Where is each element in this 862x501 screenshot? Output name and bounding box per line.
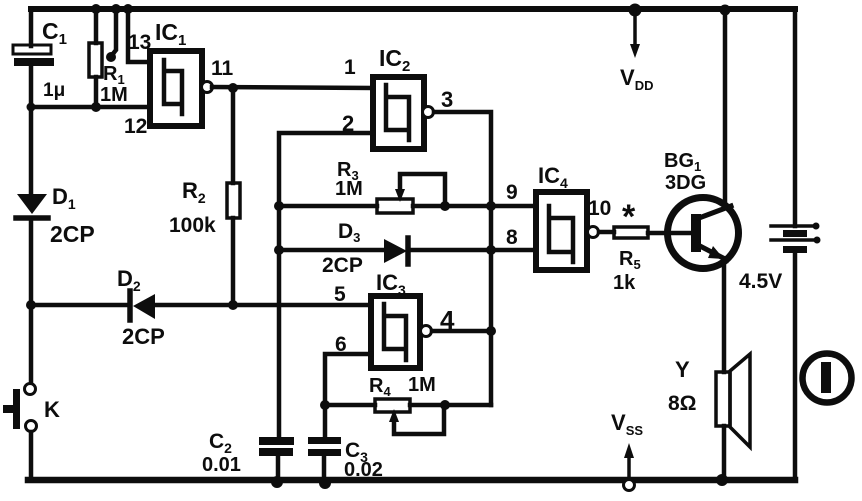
- node top rail R1: [91, 4, 101, 14]
- wire R3 row left: [279, 204, 377, 209]
- op-amp IC3 (gate): [371, 296, 420, 368]
- svg-text:0.01: 0.01: [202, 454, 241, 476]
- transistor BG1: [668, 198, 739, 269]
- wire collector to rail: [723, 9, 728, 207]
- node pin3 bus / R3 row: [486, 201, 496, 211]
- wire left rail top to C1: [29, 9, 34, 46]
- node pin11 / R2: [228, 83, 238, 93]
- wire C1 to D1: [29, 66, 34, 195]
- node VDD on rail: [629, 4, 642, 17]
- trimmer arm R4: [389, 405, 444, 434]
- svg-text:1M: 1M: [335, 178, 363, 200]
- svg-text:13: 13: [128, 31, 151, 54]
- wire R3 row right: [413, 204, 536, 209]
- wire pin 12 row: [31, 105, 150, 110]
- pin 10 bubble IC4: [588, 227, 599, 238]
- battery 4.5V: [771, 223, 821, 254]
- resistor R4: [375, 399, 410, 412]
- node R3 tap: [440, 201, 450, 211]
- svg-text:8Ω: 8Ω: [668, 392, 697, 415]
- resistor R1: [89, 43, 102, 77]
- wire R2 to D2 row: [231, 218, 236, 305]
- svg-text:2CP: 2CP: [122, 324, 165, 349]
- resistor R3: [377, 199, 413, 213]
- svg-text:K: K: [44, 397, 60, 422]
- svg-text:4.5V: 4.5V: [739, 270, 782, 293]
- svg-text:*: *: [622, 198, 636, 236]
- svg-text:0.02: 0.02: [344, 459, 383, 481]
- wire pin2 to C2 column: [279, 133, 373, 437]
- svg-text:3DG: 3DG: [665, 172, 706, 194]
- capacitor C2: [259, 437, 294, 456]
- wire speaker to bottom rail: [722, 426, 727, 480]
- op-amp IC2 (gate): [373, 77, 424, 149]
- node D2 row / left rail: [26, 300, 36, 310]
- wire R5 to base: [648, 231, 691, 236]
- wire top VDD rail: [31, 6, 795, 12]
- wire right rail lower: [793, 253, 798, 480]
- svg-text:1: 1: [344, 56, 356, 79]
- svg-text:9: 9: [506, 181, 518, 204]
- wire D3 row right: [408, 248, 536, 253]
- svg-text:1μ: 1μ: [43, 80, 65, 101]
- svg-text:100k: 100k: [169, 214, 216, 237]
- node top rail stub: [111, 4, 121, 14]
- wire K to bottom rail: [29, 432, 34, 480]
- wire pin11 to pin1: [212, 87, 373, 88]
- pin 3 bubble IC2: [423, 107, 434, 118]
- svg-text:2CP: 2CP: [50, 221, 95, 247]
- svg-text:6: 6: [335, 333, 347, 356]
- wire R4 row left: [325, 403, 375, 408]
- svg-text:1M: 1M: [100, 84, 128, 106]
- op-amp IC4 (gate): [536, 192, 587, 270]
- pin 11 bubble IC1: [202, 82, 213, 93]
- capacitor C1: [13, 45, 54, 66]
- wire C2 to bottom rail: [276, 456, 281, 480]
- resistor R2: [227, 183, 240, 218]
- svg-text:8: 8: [506, 226, 518, 249]
- node R4 row left: [320, 400, 330, 410]
- figure mark circled 1: [803, 354, 852, 403]
- wire pin4 row: [432, 329, 491, 334]
- svg-text:5: 5: [334, 283, 346, 306]
- svg-text:11: 11: [211, 57, 234, 80]
- node R2 bottom: [228, 300, 238, 310]
- svg-text:10: 10: [588, 197, 611, 220]
- wire right rail upper (battery branch): [793, 9, 798, 226]
- capacitor C3: [308, 437, 341, 456]
- op-amp IC1 (gate): [150, 51, 202, 126]
- wire D2 to IC3 pin5: [155, 303, 371, 308]
- wire pin10 to R5: [599, 230, 614, 235]
- node top rail pin13: [123, 4, 133, 14]
- wire R4 row right: [410, 403, 491, 408]
- wire rail to R1: [94, 9, 99, 43]
- switch K: [3, 384, 37, 432]
- wire C3 column: [323, 405, 328, 437]
- node pin3 bus / D3 row: [486, 245, 496, 255]
- arrow VSS: [624, 443, 635, 491]
- node speaker bottom: [716, 474, 728, 486]
- node R1 bottom: [91, 102, 101, 112]
- diode D1: [16, 194, 48, 218]
- wire bottom VSS rail: [28, 477, 795, 484]
- wire pin3 to vertical bus: [434, 112, 491, 405]
- svg-text:1k: 1k: [613, 272, 636, 294]
- svg-text:1M: 1M: [408, 374, 436, 396]
- diode D3: [384, 238, 408, 264]
- svg-text:12: 12: [124, 115, 147, 138]
- node collector rail: [720, 5, 731, 16]
- trimmer arm R3: [395, 174, 445, 206]
- node pin4 / bus: [486, 326, 496, 336]
- node C3 bottom: [319, 477, 331, 489]
- wire C3 to bottom rail: [322, 456, 327, 480]
- wire stub from rail: [112, 9, 116, 55]
- wire D1 to switch K: [29, 221, 34, 383]
- svg-text:4: 4: [440, 305, 455, 335]
- wire R1 to pin12 row: [94, 77, 99, 107]
- node C2 bottom: [271, 476, 283, 488]
- wire node to R2: [231, 88, 236, 183]
- resistor R5: [614, 227, 648, 238]
- node 1u junction: [27, 103, 36, 112]
- arrow VDD: [630, 10, 640, 58]
- node R4 tap: [440, 400, 450, 410]
- wire emitter to speaker: [722, 262, 727, 372]
- svg-text:2: 2: [342, 111, 354, 136]
- diode D2: [130, 291, 155, 320]
- node R3 row left: [274, 201, 284, 211]
- node stub end: [106, 52, 116, 62]
- pin 4 bubble IC3: [421, 326, 432, 337]
- svg-text:Y: Y: [675, 357, 690, 382]
- node D3 row left: [274, 245, 284, 255]
- wire D3 row left: [279, 248, 385, 253]
- wire pin6: [325, 354, 371, 405]
- speaker Y: [716, 354, 750, 447]
- svg-text:3: 3: [441, 87, 453, 112]
- wire pin 13: [128, 9, 150, 62]
- svg-text:2CP: 2CP: [322, 254, 363, 277]
- wire D2 row (pin 5): [31, 303, 130, 308]
